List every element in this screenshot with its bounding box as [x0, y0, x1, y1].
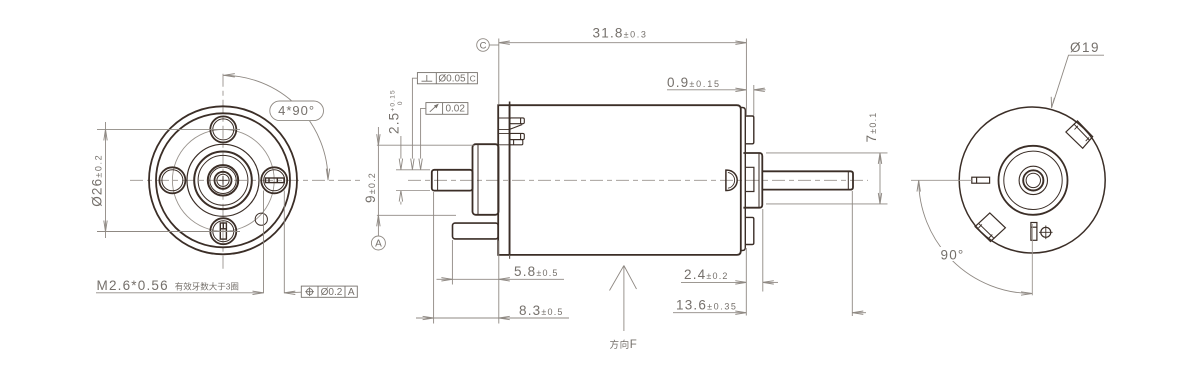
thread callout extension lines from right hole [264, 191, 285, 294]
thread leader arrow right [253, 291, 264, 294]
arc arrow top [224, 74, 235, 77]
rear shaft chamfer line [847, 172, 849, 190]
svg-text:31.8±0.3: 31.8±0.3 [593, 26, 648, 41]
datum C symbol [477, 39, 490, 52]
top right crimp tab [1066, 121, 1093, 148]
front shaft [432, 170, 473, 191]
dim 7 dimension line [879, 153, 881, 204]
right mounting hole screw [261, 167, 287, 193]
dim 31.8 dimension line [499, 42, 747, 44]
position tolerance frame [301, 286, 357, 297]
rear shaft [762, 171, 853, 189]
rear bearing boss [743, 153, 762, 208]
hub circle d30 thick [208, 165, 238, 195]
svg-text:13.6±0.35: 13.6±0.35 [676, 298, 738, 313]
arc arrow bottom [1021, 292, 1032, 295]
svg-text:0.02: 0.02 [445, 104, 465, 115]
wire main centerline [408, 179, 868, 181]
rear tab bottom [745, 217, 754, 244]
svg-text:C: C [470, 73, 476, 83]
FCF perpendicularity frame [417, 73, 477, 84]
dim 7 extension lines [766, 153, 888, 204]
dim D26 arrow down [104, 221, 107, 232]
rear hub ring thick [1023, 170, 1043, 190]
terminal pin 1 [498, 118, 524, 129]
terminal pin 2 [498, 133, 524, 144]
bottom mounting hole screw [210, 218, 236, 244]
svg-text:90°: 90° [940, 248, 964, 263]
rear hub ring inner [1026, 173, 1040, 187]
FCF runout frame [426, 103, 468, 115]
dim 0.9 second extension [753, 85, 755, 116]
front boss chamfer line [477, 145, 479, 215]
FCF leader 2 [421, 108, 426, 158]
svg-text:2.4±0.2: 2.4±0.2 [684, 267, 729, 282]
rear cap [741, 108, 746, 251]
body front face stub bottom [509, 255, 511, 259]
rear boss chamfer line [758, 154, 760, 208]
svg-text:A: A [375, 239, 382, 250]
shaft circle d12 [217, 174, 229, 186]
dim 9 dimension line [377, 127, 379, 236]
svg-text:8.3±0.5: 8.3±0.5 [519, 303, 564, 318]
dim 31.8 extension lines [499, 39, 747, 116]
dim D26 dimension line [105, 122, 107, 238]
bottom screw slot [220, 223, 226, 239]
rear boss step [745, 167, 754, 191]
bottom radial slot [1031, 223, 1037, 241]
wire horizontal centerline of front view [130, 179, 360, 181]
top mounting hole [210, 116, 236, 142]
dim 2.5 dimension lines and arrows [400, 136, 402, 205]
dim D26 arrow up [104, 129, 107, 140]
arc arrow top [917, 181, 920, 192]
rear cover outer circle [959, 107, 1105, 253]
FCF leader 1 [412, 78, 417, 158]
datum A symbol [371, 236, 385, 250]
pin hole [255, 213, 267, 225]
right screw slot [266, 178, 285, 183]
dim D26 extension lines [97, 129, 240, 231]
direction F arrow [610, 266, 637, 332]
motor body [510, 105, 741, 255]
svg-text:2.5+0.150: 2.5+0.150 [387, 89, 405, 134]
bottom extension lines right [746, 191, 852, 316]
bottom left crimp tab [975, 213, 1005, 242]
dim 2.4 dimension line [681, 281, 746, 283]
svg-text:方向F: 方向F [610, 339, 638, 351]
angle arc 90 [919, 180, 1032, 293]
balloon 4x90 [270, 101, 324, 121]
defs [90, 74, 361, 299]
dim 8.3 dimension line [416, 317, 569, 319]
svg-text:Ø19: Ø19 [1070, 40, 1100, 55]
left mounting hole [159, 167, 185, 193]
wire vertical centerline of front view [222, 74, 224, 271]
svg-text:7±0.1: 7±0.1 [864, 112, 879, 143]
svg-text:5.8±0.5: 5.8±0.5 [514, 264, 559, 279]
dim 13.6 dimension line [673, 312, 746, 314]
bolt circle [172, 129, 274, 231]
front bearing boss [473, 144, 499, 215]
rear boss inner circle [1004, 151, 1062, 209]
svg-text:Ø0.2: Ø0.2 [321, 287, 343, 298]
thread opposing arrow [284, 291, 301, 294]
svg-text:0.9±0.15: 0.9±0.15 [667, 75, 721, 90]
svg-text:有效牙数大于3圈: 有效牙数大于3圈 [175, 282, 239, 292]
rear hub ring outer [1019, 166, 1047, 194]
dim 9 extension lines [377, 145, 474, 215]
shaft edge extension lines [396, 170, 430, 191]
dim 5.8 dimension line [452, 278, 564, 280]
vent D detail [726, 170, 737, 190]
arc arrow bottom [326, 169, 329, 180]
svg-text:4*90°: 4*90° [278, 103, 315, 118]
svg-text:Ø26±0.2: Ø26±0.2 [90, 154, 105, 207]
D19 leader [1053, 55, 1104, 103]
thread callout leader line [96, 292, 263, 294]
leader arc 4x90 [223, 75, 328, 180]
svg-text:Ø0.05: Ø0.05 [438, 73, 466, 84]
rear boss outer circle [999, 146, 1068, 215]
shaft circle d17 thick [215, 172, 232, 189]
boss circle d58 thick [194, 152, 252, 210]
svg-text:9±0.2: 9±0.2 [363, 172, 378, 203]
center cross [219, 176, 228, 185]
centerline vertical bottom [1031, 224, 1033, 295]
svg-text:M2.6*0.56: M2.6*0.56 [97, 278, 169, 293]
flange outer circle [149, 106, 297, 254]
label 90deg [938, 247, 967, 261]
small cross hole [1041, 227, 1051, 237]
can outer circle [156, 113, 290, 247]
svg-text:A: A [348, 287, 355, 298]
bottom extension lines left [434, 192, 499, 324]
bottom front tab [453, 223, 499, 239]
rear tab top [745, 116, 754, 144]
left radial slot [972, 177, 990, 183]
front shaft chamfer line [437, 170, 439, 190]
D19 leader arrow [1051, 97, 1054, 108]
flange plate [498, 105, 509, 255]
boss circle d72 [187, 144, 259, 216]
svg-text:C: C [480, 40, 487, 51]
body front face stub top [509, 102, 511, 106]
boss circle d50 [198, 155, 248, 205]
centerline horizontal left [911, 179, 972, 181]
hub circle d26 [210, 167, 236, 193]
